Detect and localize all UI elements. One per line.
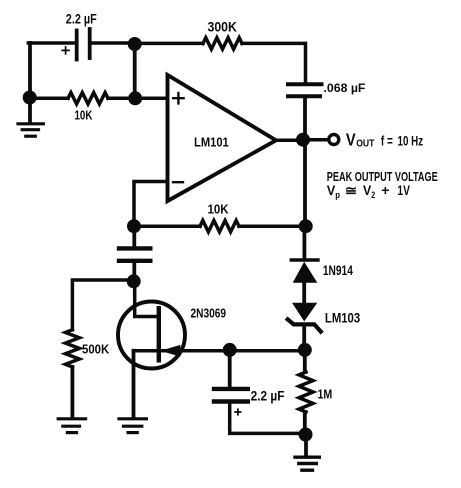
wire node A to resistor R1 (135, 42, 203, 46)
node A (top feedback node) (128, 37, 142, 51)
C1 plus polarity mark (62, 47, 69, 54)
wire R2 to op-amp plus input (108, 97, 166, 101)
svg-text:+: + (381, 182, 389, 198)
C4 plus polarity mark (235, 409, 241, 415)
svg-text:2: 2 (371, 189, 375, 200)
wire output node down to node F (303, 140, 307, 227)
node F (right end of R3 on output rail) (299, 219, 313, 233)
svg-text:2N3069: 2N3069 (191, 306, 227, 320)
Q1 source leg down to ground (132, 351, 136, 417)
wire node F down to D1 (302, 226, 306, 258)
label R5 value 1M (318, 387, 333, 402)
node G (gate drive node) (127, 274, 141, 288)
wire C3 to node G (132, 263, 136, 281)
svg-text:1M: 1M (318, 387, 333, 402)
wire op-amp minus input to node E (134, 182, 166, 225)
svg-text:LM103: LM103 (325, 310, 360, 325)
diode D1 1N914 triangle (293, 262, 318, 283)
label C1 value 2.2 uF (66, 11, 97, 27)
node E (left end of R3) (127, 219, 141, 233)
svg-text:1V: 1V (397, 182, 410, 198)
wire C4 bottom to node J (230, 404, 304, 434)
wire D1 to D2 (302, 282, 306, 303)
U1 minus input mark (173, 181, 183, 183)
capacitor C2 .068uF (288, 84, 322, 96)
svg-text:10K: 10K (75, 109, 93, 122)
svg-text:10K: 10K (208, 202, 229, 217)
svg-text:2.2 µF: 2.2 µF (66, 11, 97, 27)
wire op-amp output to output node (276, 139, 303, 143)
wire R5 to node J (303, 412, 307, 434)
wire node C to ground (28, 98, 32, 122)
svg-text:OUT: OUT (356, 138, 374, 149)
label U1 LM101 (194, 135, 229, 150)
ground GND2 (58, 419, 85, 433)
diode D2 LM103 zener triangle (292, 303, 317, 322)
node I (zener / 1M / rail node) (298, 343, 312, 357)
label C4 value 2.2 uF (251, 387, 285, 403)
wire R4 to ground (71, 367, 75, 417)
resistor R2 10K (input) (68, 93, 108, 104)
Q1 gate arrow (points to channel) (161, 345, 181, 357)
wire node I to R5 (303, 350, 307, 372)
resistor R4 500K (65, 330, 79, 367)
label D1 1N914 (323, 262, 353, 278)
resistor R5 1M (299, 372, 313, 412)
label R1 value 300K (208, 19, 238, 35)
svg-text:500K: 500K (82, 342, 109, 357)
label R2 value 10K (75, 109, 93, 122)
label D2 LM103 (325, 310, 360, 325)
capacitor C3 (coupling, unlabeled) (119, 248, 150, 260)
wire node E down to C3 (132, 226, 136, 246)
op-amp U1 LM101 triangle (168, 75, 277, 201)
svg-text:1N914: 1N914 (323, 262, 353, 278)
diode D1 1N914 cathode bar (291, 258, 318, 261)
wire C2 to output node (303, 98, 307, 139)
ground GND1 (18, 124, 43, 136)
Q1 drain lead from node G (135, 281, 157, 317)
wire node J to ground (304, 435, 308, 456)
wire R3 to node F (239, 224, 306, 228)
label Q1 2N3069 (191, 306, 227, 320)
svg-text:.068 µF: .068 µF (324, 81, 366, 95)
capacitor C1 2.2uF (electrolytic, top left) (77, 29, 90, 60)
resistor R1 300K (203, 38, 242, 49)
svg-text:p: p (335, 189, 340, 200)
node C (ground-side node) (23, 91, 37, 105)
wire node A down to node B (133, 44, 137, 98)
label C2 value .068 uF (324, 81, 366, 95)
label R3 value 10K (208, 202, 229, 217)
U1 plus input mark (173, 93, 183, 103)
label PEAK OUTPUT VOLTAGE (327, 171, 438, 185)
transistor Q1 2N3069 body circle (118, 302, 185, 369)
svg-text:10 Hz: 10 Hz (398, 133, 424, 149)
node H (top of C4) (223, 343, 237, 357)
node J (bottom ground node) (299, 428, 313, 442)
resistor R3 10K (feedback divider) (200, 221, 239, 232)
label VOUT f = 10 Hz (346, 131, 356, 150)
wire upper-left horizontal to C1 (28, 41, 75, 45)
node B (inverting-side input node) (128, 91, 142, 105)
wire D2 to node I (302, 326, 306, 349)
label R4 value 500K (82, 342, 109, 357)
svg-text:V: V (363, 182, 371, 198)
wire top-left vertical (node to upper loop corner) (28, 43, 32, 97)
wire node G left and down to R4 (72, 280, 134, 330)
svg-text:2.2 µF: 2.2 µF (251, 387, 285, 403)
wire node C to resistor R2 (30, 97, 68, 101)
wire bottom rail (source/gate rail to node I) (134, 349, 306, 353)
ground GND3 (119, 419, 146, 433)
ground GND4 (295, 457, 319, 470)
Q1 channel bar (157, 308, 161, 360)
output terminal (open circle) (329, 135, 339, 145)
capacitor C4 2.2uF (electrolytic, bottom) (214, 389, 248, 402)
node D (output node) (296, 133, 310, 147)
D2 zener cathode bar with bent ends (288, 319, 321, 331)
svg-text:≅: ≅ (345, 184, 357, 198)
wire C1 right plate to node A (91, 41, 134, 45)
wire node E to resistor R3 (134, 224, 200, 228)
svg-text:300K: 300K (208, 19, 238, 35)
svg-text:V: V (346, 131, 356, 150)
wire output node to terminal (303, 138, 328, 142)
svg-text:LM101: LM101 (194, 135, 229, 150)
svg-text:V: V (327, 182, 336, 198)
wire R1 to top-right corner down to C2 (242, 43, 306, 82)
label Vp approx V2 + 1V (327, 182, 336, 198)
wire node H down to C4 (228, 350, 232, 387)
svg-text:f =: f = (381, 133, 393, 149)
